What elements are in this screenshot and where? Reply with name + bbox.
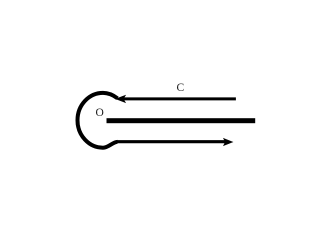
wire lower line of contour — [117, 140, 227, 143]
node C label (contour name) — [177, 83, 185, 95]
wire branch cut thick line — [107, 118, 256, 123]
arrowhead on lower line pointing right — [224, 139, 233, 146]
node O label (origin) — [96, 108, 104, 120]
arrowhead on upper line pointing left — [116, 95, 126, 102]
circle arc around origin O — [78, 93, 118, 148]
wire upper line of contour — [120, 97, 236, 100]
